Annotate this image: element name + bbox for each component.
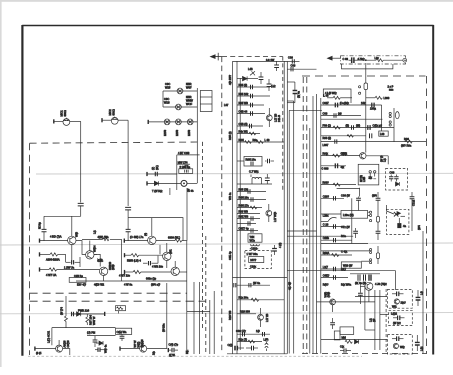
- wire: [147, 348, 167, 350]
- svg-text:L087: L087: [323, 143, 329, 147]
- terminal J4: [146, 172, 148, 176]
- capacitor C8 vertical: [94, 336, 96, 340]
- transistor Q4: [151, 218, 153, 237]
- wire: [120, 348, 140, 350]
- row L087 : wire: [321, 141, 426, 143]
- pin pair: [370, 249, 372, 251]
- wire: [35, 348, 56, 350]
- svg-text:R4x W2: R4x W2: [239, 130, 249, 134]
- svg-text:C08: C08: [288, 56, 293, 60]
- terminal: [34, 347, 36, 351]
- svg-text:L07: L07: [224, 103, 229, 107]
- wire power feed vertical: [365, 63, 367, 83]
- wire lamp bus: [196, 88, 198, 183]
- svg-text:F09 (1): F09 (1): [323, 124, 331, 128]
- svg-text:R0N 10a: R0N 10a: [246, 158, 257, 162]
- capacitor C40: [358, 197, 360, 198]
- pin pair: [370, 220, 372, 222]
- svg-text:R(0?: R(0?: [323, 283, 329, 287]
- svg-text:C(4) (7p: C(4) (7p: [169, 343, 179, 347]
- svg-text:C26x: C26x: [250, 264, 257, 268]
- svg-text:L((x: L((x: [420, 346, 424, 351]
- resistor R6 vertical: [65, 296, 67, 316]
- wire: [79, 257, 81, 267]
- wire: [395, 271, 397, 290]
- svg-text:L 63: L 63: [265, 138, 271, 142]
- svg-text:L17 2B: L17 2B: [274, 114, 278, 122]
- wire jog: [187, 311, 210, 313]
- row C087 : wire: [321, 104, 382, 106]
- svg-text:A8(28: A8(28: [63, 340, 67, 347]
- svg-text:6309 (WL): 6309 (WL): [168, 236, 180, 240]
- svg-text:R2x 39a: R2x 39a: [239, 296, 249, 300]
- wire: [317, 301, 375, 303]
- svg-text:C 28: C 28: [323, 223, 329, 227]
- svg-text:600Ω: 600Ω: [63, 110, 67, 116]
- wire: [186, 188, 188, 241]
- svg-text:R05 W3: R05 W3: [239, 101, 249, 105]
- svg-text:W28 (W: W28 (W: [343, 264, 353, 268]
- terminal: [124, 270, 126, 274]
- svg-text:C6ET 4p: C6ET 4p: [239, 227, 250, 231]
- wire: [287, 100, 293, 102]
- wire: [287, 270, 395, 272]
- row R05a : wire: [237, 86, 270, 88]
- wire: [102, 119, 111, 121]
- wire: [162, 91, 164, 107]
- wire: [213, 291, 215, 354]
- capacitor: [398, 316, 400, 321]
- capacitor C29: [234, 283, 236, 287]
- dashed bottom line 2: [30, 300, 206, 302]
- wire: [103, 276, 105, 282]
- wire: [321, 338, 388, 340]
- wire: [52, 327, 116, 329]
- svg-text:MIC1: MIC1: [60, 110, 64, 117]
- transistor Q15: [365, 282, 373, 290]
- svg-text:(x8: (x8: [338, 112, 342, 116]
- svg-text:C9C: C9C: [165, 82, 170, 86]
- wire: [148, 121, 197, 123]
- svg-text:4 W3 10s: 4 W3 10s: [152, 265, 164, 269]
- svg-text:L(x)2: L(x)2: [391, 312, 397, 316]
- row F09 : wire: [321, 127, 394, 129]
- terminal: [123, 239, 125, 243]
- lamp PL3: [164, 119, 170, 125]
- capacitor C31: [155, 172, 157, 176]
- svg-text:10k: 10k: [361, 101, 366, 105]
- terminal J2: [101, 118, 103, 122]
- svg-text:(W-23a: (W-23a: [162, 323, 166, 332]
- svg-text:24V?: 24V?: [250, 258, 257, 262]
- row R0x : wire: [321, 155, 360, 157]
- connector box P1: [200, 91, 212, 112]
- wire PB line: [71, 313, 105, 315]
- row C4B2 : wire: [237, 125, 263, 127]
- svg-text:W0F: W0F: [186, 86, 192, 90]
- svg-text:R0(x: R0(x: [323, 152, 329, 156]
- row R4Nb : wire: [237, 207, 262, 209]
- wire: [87, 335, 116, 337]
- svg-text:R2x (7): R2x (7): [239, 338, 248, 342]
- svg-text:EB 2: EB 2: [342, 152, 348, 156]
- wire: [163, 90, 197, 92]
- svg-text:4 RD (7)A: 4 RD (7)A: [50, 235, 62, 239]
- wire: [364, 282, 366, 330]
- wire: [166, 283, 168, 349]
- row R0N : wire: [237, 141, 284, 143]
- svg-text:W(B4: W(B4: [93, 245, 97, 252]
- dashed enclosure left box right: [202, 142, 204, 331]
- transistor Q18: [330, 299, 336, 305]
- capacitor C0E: [368, 125, 370, 130]
- svg-text:R0N: R0N: [239, 138, 244, 142]
- box R0N10a: [244, 157, 262, 167]
- row C28c : wire: [321, 239, 352, 241]
- svg-text:C 03: C 03: [343, 57, 349, 61]
- wire: [54, 120, 63, 122]
- wire: [237, 313, 256, 315]
- wire: [199, 282, 201, 354]
- row R05c : wire: [237, 104, 264, 106]
- wire: [377, 205, 379, 217]
- svg-text:4 W7 UA: 4 W7 UA: [46, 273, 57, 277]
- diode D3: [237, 78, 242, 80]
- wire: [381, 105, 383, 131]
- antenna chain outline: [341, 56, 406, 64]
- capacitor C26: [248, 221, 250, 225]
- transistor Q2: [89, 241, 91, 251]
- page edge shading top: [0, 0, 453, 2]
- small box with resistor: [116, 306, 126, 311]
- wire: [351, 198, 353, 243]
- svg-text:L08: L08: [380, 132, 385, 136]
- row R2x : wire: [237, 299, 284, 301]
- wire: [128, 218, 183, 241]
- dashed box bias: [245, 251, 271, 269]
- svg-text:(W): (W): [356, 124, 360, 128]
- svg-text:4 W7 13s: 4 W7 13s: [119, 274, 131, 278]
- svg-text:(L(x: (L(x: [271, 84, 276, 88]
- svg-text:TriN: TriN: [250, 235, 255, 239]
- terminal: [124, 253, 126, 257]
- svg-text:C.7 W(x: C.7 W(x: [249, 170, 259, 174]
- diode D5: [355, 340, 359, 344]
- svg-text:0.8 2W: 0.8 2W: [266, 58, 275, 62]
- wire: [321, 250, 370, 252]
- transistor Q17: [393, 343, 398, 348]
- row R05b : wire: [237, 95, 270, 97]
- svg-text:L4B: L4B: [248, 67, 253, 71]
- lamp PL2: [176, 104, 182, 110]
- svg-text:W(x: W(x: [400, 345, 405, 349]
- transistor Q13 marks: [250, 71, 255, 75]
- wire: [337, 188, 360, 190]
- capacitor C54 branch: [287, 81, 295, 83]
- pin pair: [370, 211, 372, 213]
- dashed box switch2: [386, 209, 409, 234]
- svg-text:((( W.: ((( W.: [169, 353, 176, 357]
- terminal J5: [146, 181, 148, 185]
- wire: [63, 349, 70, 355]
- svg-text:(W 4a: (W 4a: [253, 281, 260, 285]
- box C2N: [69, 278, 86, 283]
- svg-text:mm: mm: [389, 89, 393, 92]
- capacitor C53: [291, 67, 293, 71]
- capacitor: [370, 133, 372, 138]
- capacitor C55: [185, 165, 189, 167]
- svg-text:180µ: 180µ: [370, 107, 376, 111]
- row R6E : wire: [237, 218, 260, 220]
- svg-text:W1S: W1S: [164, 101, 170, 105]
- svg-text:4(x 4(9: 4(x 4(9: [287, 281, 291, 290]
- svg-text:L17 2B: L17 2B: [265, 314, 269, 322]
- svg-text:1 W7 39a: 1 W7 39a: [247, 252, 259, 256]
- pin circles: [359, 86, 361, 88]
- row R4Na : wire: [237, 199, 266, 201]
- connector oval: [395, 112, 399, 119]
- diode pair X: [387, 205, 394, 214]
- wire: [147, 182, 181, 184]
- capacitor C44: [355, 228, 357, 231]
- svg-text:(W4: (W4: [417, 225, 421, 230]
- diode D4: [396, 182, 400, 186]
- microphone MIC1: [63, 119, 70, 126]
- wire: [293, 101, 295, 354]
- svg-text:A200-B2SA: A200-B2SA: [46, 258, 60, 262]
- svg-text:C(x: C(x: [340, 345, 345, 349]
- wire: [380, 313, 389, 315]
- row R06A : wire: [321, 254, 352, 256]
- svg-text:C06 (W: C06 (W: [341, 194, 350, 198]
- row C6E : wire: [321, 277, 348, 279]
- capacitor C6: [143, 262, 148, 264]
- wire: [80, 206, 82, 216]
- dashed unit box B3: [387, 334, 412, 354]
- capacitor C47: [359, 286, 361, 293]
- svg-text:W7p: W7p: [250, 239, 256, 243]
- wire: [374, 290, 376, 350]
- transistor Q9: [181, 180, 187, 186]
- box C(E)Wa: [116, 328, 132, 334]
- wire: [127, 232, 129, 241]
- svg-text:(W? R0a: (W? R0a: [401, 144, 412, 148]
- wire: [379, 290, 381, 350]
- svg-text:R05 (2): R05 (2): [239, 83, 248, 87]
- capacitor: [390, 175, 392, 177]
- dashed unit box B1: [387, 290, 412, 309]
- svg-text:1 2W Ua: 1 2W Ua: [64, 265, 75, 269]
- wire: [163, 106, 197, 108]
- pcb column divider: [233, 276, 288, 278]
- pin pair b: [389, 121, 391, 123]
- svg-text:MIC2: MIC2: [108, 109, 112, 116]
- wire: [193, 282, 195, 354]
- diode D1: [77, 312, 81, 316]
- dashed enclosure right right edge: [425, 76, 427, 354]
- svg-text:E8? 4(?: E8? 4(?: [77, 283, 87, 287]
- svg-text:WNW: WNW: [186, 99, 193, 103]
- svg-text:(W4 a(?: (W4 a(?: [151, 283, 161, 287]
- wire: [127, 210, 129, 218]
- wire: [159, 245, 161, 254]
- dashed unit box B2: [389, 311, 413, 326]
- capacitor C12: [260, 72, 262, 77]
- svg-text:(W (74: (W (74: [60, 307, 64, 315]
- pcb column inner bus: [239, 78, 241, 350]
- svg-text:NBR: NBR: [186, 82, 192, 86]
- transistor Q1: [71, 216, 73, 236]
- row R08 : wire: [237, 213, 260, 215]
- capacitor C30: [249, 283, 251, 287]
- svg-text:C087: C087: [323, 101, 330, 105]
- row C28 : wire: [321, 197, 344, 199]
- capacitor C20: [251, 162, 253, 166]
- svg-text:R05 10k: R05 10k: [239, 92, 249, 96]
- resistor R5: [125, 271, 134, 273]
- row R4x : wire: [237, 133, 260, 135]
- dashed enclosure right inner left edge: [306, 77, 308, 354]
- resistor R4: [125, 254, 132, 256]
- terminal: [39, 239, 41, 243]
- svg-text:2(a: 2(a: [152, 351, 156, 355]
- wire column to bus: [287, 230, 316, 232]
- svg-text:L17 W(B: L17 W(B: [273, 212, 277, 222]
- dashed enclosure left box top: [30, 142, 203, 143]
- terminal J3: [147, 120, 149, 124]
- capacitor C3: [66, 261, 71, 263]
- schematic frame border top: [22, 25, 433, 27]
- terminal: [39, 252, 41, 256]
- wire: [309, 128, 311, 354]
- wire mic1 drop: [80, 121, 82, 202]
- fuse F3: [377, 246, 379, 253]
- wire: [94, 254, 100, 266]
- svg-text:(B): (B): [346, 124, 350, 128]
- svg-text:C08: C08: [323, 112, 328, 116]
- svg-text:-C202-: -C202-: [250, 247, 258, 251]
- pcb column left edge a: [232, 61, 234, 353]
- capacitor C13: [268, 79, 270, 84]
- wire mic2 drop: [127, 120, 129, 206]
- svg-text:R08 (k): R08 (k): [323, 136, 332, 140]
- svg-text:600Ω: 600Ω: [112, 109, 116, 115]
- transistor Q5: [166, 243, 168, 252]
- svg-text:C28?: C28?: [323, 194, 330, 198]
- resistor R2: [40, 269, 50, 271]
- pin pair: [370, 259, 372, 261]
- svg-text:R4N 28a: R4N 28a: [239, 196, 250, 200]
- svg-text:1(9: 1(9: [256, 329, 260, 333]
- terminal: [104, 312, 106, 316]
- wire: [289, 109, 322, 111]
- svg-text:MW6: MW6: [163, 129, 167, 136]
- svg-text:C28b: C28b: [323, 236, 330, 240]
- svg-text:R06A: R06A: [323, 251, 330, 255]
- row R2y : wire: [237, 341, 262, 343]
- wire: [70, 120, 81, 122]
- multi capacitor C46: [350, 273, 380, 275]
- wire: [237, 183, 272, 185]
- bus vertical pair a: [316, 94, 318, 354]
- wire: [157, 256, 159, 264]
- wire: [65, 254, 67, 262]
- wire: [237, 160, 244, 162]
- fuse F2: [376, 216, 379, 222]
- pcb column left edge b: [236, 61, 238, 353]
- svg-text:W(E): W(E): [137, 341, 141, 347]
- wire: [121, 239, 123, 281]
- wire: [287, 235, 353, 237]
- svg-text:C(2): C(2): [228, 343, 233, 347]
- svg-text:R08?: R08?: [323, 181, 330, 185]
- row R08b : wire: [321, 184, 356, 186]
- wire stub: [118, 311, 120, 314]
- wire: [76, 241, 85, 255]
- row C088 : wire: [321, 165, 346, 167]
- transistor Q6: [171, 267, 179, 275]
- transistor Q8: [140, 345, 147, 352]
- transistor Q16: [394, 299, 399, 304]
- off-page arrow A2: [327, 56, 333, 61]
- jack circle: [403, 58, 407, 62]
- svg-text:(W4: (W4: [372, 194, 377, 198]
- svg-text:PWR 214: PWR 214: [78, 309, 90, 313]
- svg-text:W15: W15: [165, 86, 171, 90]
- tuner block top edge: [323, 89, 351, 103]
- lamp PL1: [177, 88, 183, 94]
- resistor R8 box: [249, 257, 264, 263]
- svg-text:R4N 27a: R4N 27a: [239, 204, 250, 208]
- transistor Q14: [360, 153, 366, 159]
- svg-text:L(P): L(P): [264, 338, 269, 342]
- schematic frame border right: [432, 25, 434, 355]
- inductor L08 box: [379, 131, 388, 136]
- svg-text:(W(9: (W(9: [327, 291, 331, 297]
- row C08 : wire: [321, 115, 361, 117]
- svg-text:(2( 4a: (2( 4a: [297, 91, 301, 98]
- svg-text:(U) PM: (U) PM: [87, 331, 95, 335]
- resistor R10: [82, 238, 103, 240]
- capacitor: [397, 292, 399, 297]
- terminal: [39, 267, 41, 271]
- dashed enclosure inner right: [205, 236, 207, 354]
- wire stub: [169, 188, 171, 195]
- svg-text:4(B 2W?: 4(B 2W?: [228, 74, 232, 85]
- svg-text:C9C: C9C: [164, 97, 169, 101]
- bus vertical pair b: [320, 98, 322, 354]
- svg-text:241-B: 241-B: [277, 115, 281, 122]
- fold line 1: [36, 172, 453, 175]
- box: [334, 331, 340, 340]
- transistor Q3: [99, 267, 107, 275]
- wire: [358, 59, 376, 61]
- svg-text:L383: L383: [384, 96, 390, 100]
- wire long: [321, 118, 383, 120]
- svg-text:C6E 4p: C6E 4p: [228, 251, 232, 260]
- transformer T1 box: [248, 234, 262, 242]
- svg-text:(8 (4: (8 (4: [36, 351, 42, 355]
- svg-text:C2N 1p: C2N 1p: [74, 274, 83, 278]
- wire: [187, 182, 197, 184]
- svg-text:R08 W3: R08 W3: [239, 210, 249, 214]
- svg-text:(W(9: (W(9: [111, 264, 115, 270]
- resistor R1: [40, 253, 51, 255]
- dashed bottom line 1: [30, 292, 187, 294]
- row C4B : wire: [237, 113, 265, 115]
- dashed enclosure right outer left edge: [302, 77, 304, 354]
- wire exit lower: [287, 68, 316, 70]
